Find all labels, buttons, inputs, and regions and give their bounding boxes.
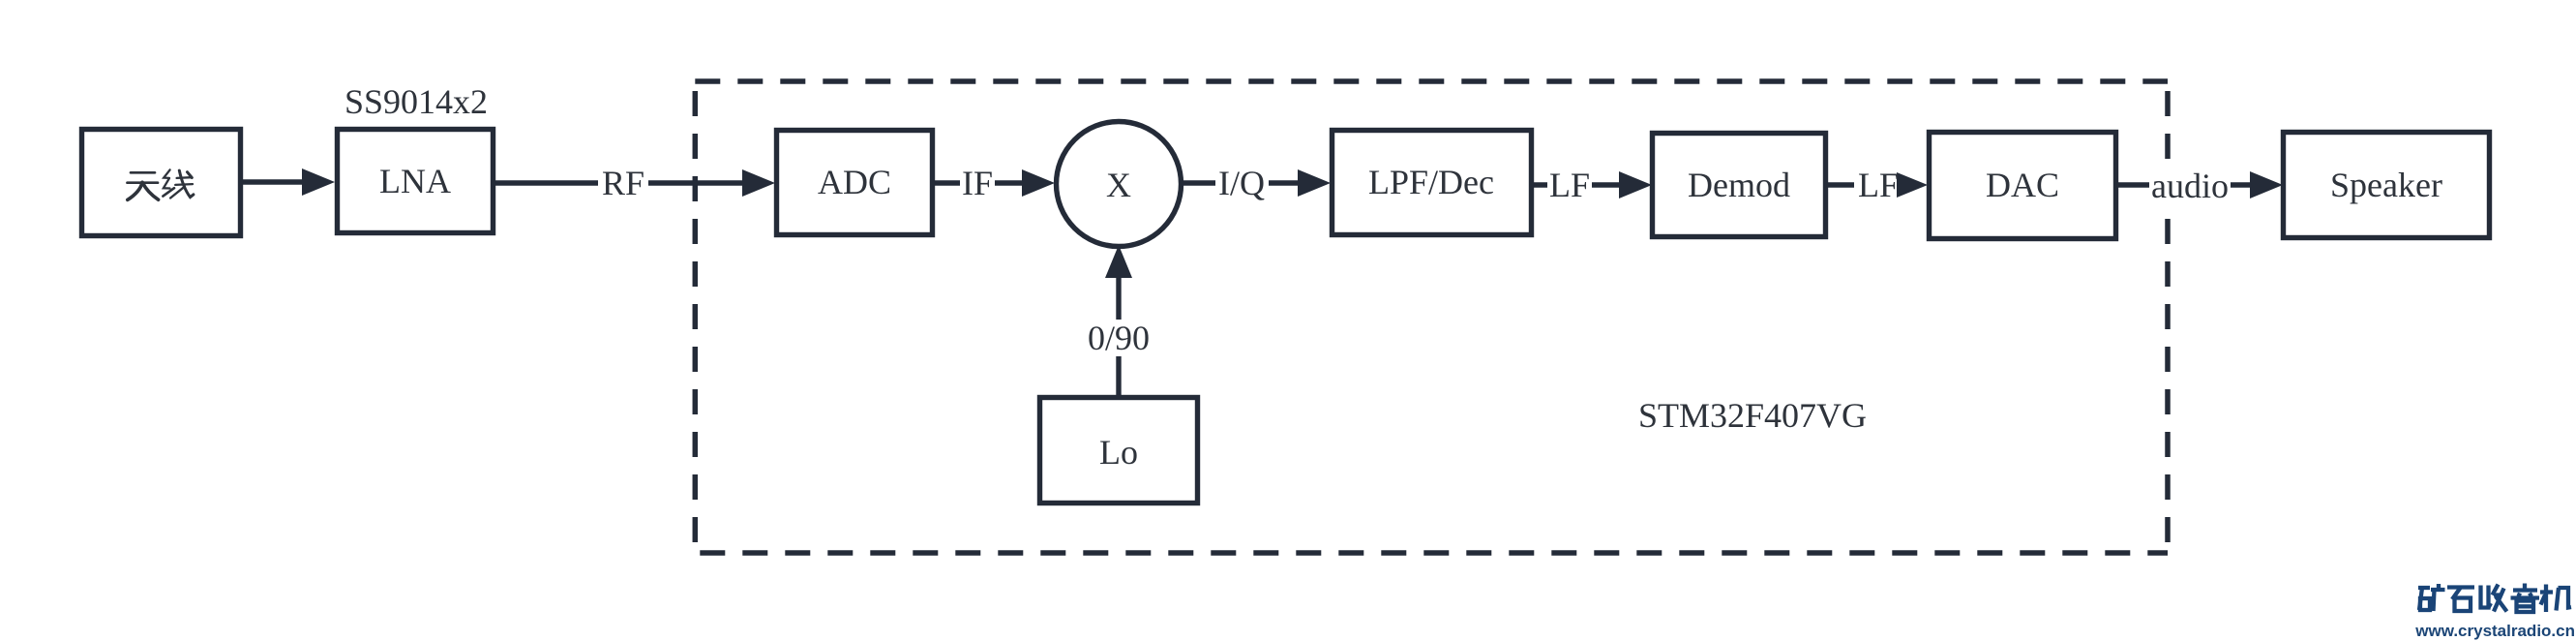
svg-text:IF: IF [962, 164, 993, 202]
wire Demod to DAC (LF) [1828, 167, 1928, 203]
box Demod [1653, 134, 1826, 237]
svg-text:I/Q: I/Q [1218, 164, 1265, 202]
wire Lo to mixer (0/90) [1087, 245, 1151, 395]
wire mixer to LPF/Dec (I/Q) [1183, 165, 1331, 201]
wire 天线 to LNA [243, 168, 335, 196]
mixer circle X [1057, 122, 1182, 247]
svg-text:Speaker: Speaker [2330, 166, 2442, 204]
box Lo [1040, 398, 1198, 504]
box LNA [338, 130, 494, 233]
svg-text:www.crystalradio.cn: www.crystalradio.cn [2414, 622, 2575, 640]
svg-text:0/90: 0/90 [1088, 319, 1150, 357]
wire ADC to mixer (IF) [935, 165, 1055, 201]
box Speaker [2284, 133, 2490, 238]
svg-text:SS9014x2: SS9014x2 [344, 82, 488, 121]
svg-text:LPF/Dec: LPF/Dec [1368, 163, 1494, 201]
svg-text:STM32F407VG: STM32F407VG [1638, 396, 1867, 435]
box 天线 (antenna) [82, 130, 241, 236]
box ADC [777, 131, 933, 235]
svg-text:LF: LF [1858, 166, 1899, 204]
wire LPF/Dec to Demod (LF) [1534, 167, 1652, 203]
text 天线 drawn as strokes [128, 169, 194, 199]
box DAC [1930, 133, 2116, 239]
svg-text:X: X [1106, 166, 1131, 204]
svg-text:Demod: Demod [1688, 166, 1790, 204]
svg-text:RF: RF [602, 164, 644, 202]
svg-text:LF: LF [1549, 166, 1590, 204]
svg-text:audio: audio [2151, 167, 2229, 205]
svg-text:Lo: Lo [1099, 433, 1138, 472]
dashed STM32 region box [695, 81, 2168, 553]
svg-text:ADC: ADC [818, 163, 891, 201]
wire DAC to Speaker (audio) [2118, 167, 2283, 203]
watermark logo 矿石收音机 [2418, 584, 2571, 613]
box LPF/Dec [1333, 131, 1532, 235]
wire LNA to ADC (RF) [495, 165, 775, 201]
svg-text:LNA: LNA [379, 162, 451, 200]
svg-text:DAC: DAC [1986, 166, 2059, 204]
